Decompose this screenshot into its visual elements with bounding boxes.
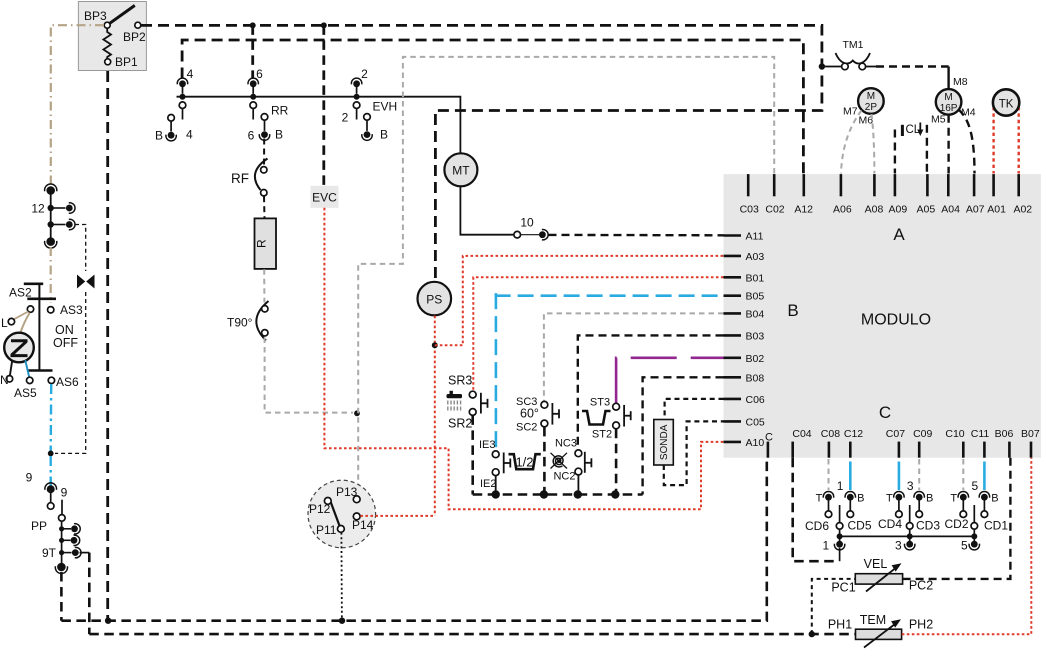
wire gray M6 to A08 <box>872 114 875 174</box>
wire blue AS6 down <box>50 384 53 451</box>
svg-text:AS3: AS3 <box>60 303 83 317</box>
wire red PS to A03 <box>435 256 724 345</box>
svg-text:1/2: 1/2 <box>515 455 533 470</box>
wire red PS down <box>434 316 436 516</box>
wire blue B05 to IE3 <box>495 293 498 450</box>
svg-text:ON: ON <box>55 323 74 337</box>
pin A02 <box>1017 174 1020 196</box>
wire PC2 to B06 <box>903 458 1011 579</box>
terminal P13 <box>353 496 360 503</box>
svg-text:IE3: IE3 <box>479 439 496 451</box>
wire M5 to A04 <box>947 115 949 174</box>
icon basin 1/2 <box>509 454 541 469</box>
pin C05 <box>724 420 742 423</box>
terminal BP2 <box>135 22 141 28</box>
pin C12 <box>849 442 852 458</box>
wire Z to N <box>10 361 12 376</box>
terminal P12 <box>324 498 331 505</box>
svg-text:P12: P12 <box>309 502 331 516</box>
svg-text:PH2: PH2 <box>909 618 933 632</box>
svg-text:M8: M8 <box>953 76 968 88</box>
svg-text:PP: PP <box>31 519 47 533</box>
svg-text:B07: B07 <box>1021 428 1040 440</box>
wire M4 to A07 <box>959 110 975 174</box>
switch BP3 blade <box>109 5 135 24</box>
pin C04 <box>791 442 794 458</box>
svg-text:TK: TK <box>999 98 1014 110</box>
connector 12 <box>50 190 52 242</box>
svg-text:CD3: CD3 <box>916 519 940 533</box>
pin B06 <box>1008 442 1011 458</box>
terminal P11 <box>338 526 345 533</box>
pushbutton block BP <box>78 2 146 71</box>
pin B07 <box>1030 442 1033 458</box>
sensor SONDA <box>654 420 674 466</box>
pin C11 <box>983 442 986 458</box>
wire purple B02 to ST3 <box>616 358 723 403</box>
wire BP1 down <box>106 71 109 621</box>
svg-text:SONDA: SONDA <box>659 424 670 460</box>
svg-text:M5: M5 <box>931 114 946 126</box>
contact group CD6/CD5 <box>828 459 830 490</box>
wire bottom bus 1 <box>61 458 766 621</box>
svg-text:5: 5 <box>961 539 968 553</box>
svg-text:A12: A12 <box>794 204 813 216</box>
pin C10 <box>962 442 965 458</box>
svg-text:EVC: EVC <box>312 191 337 205</box>
svg-text:A: A <box>893 225 905 244</box>
svg-text:AS2: AS2 <box>9 286 32 300</box>
svg-text:B: B <box>275 128 283 142</box>
pin B04 <box>724 312 742 315</box>
programmer P circle <box>308 480 376 548</box>
svg-text:N: N <box>0 373 9 387</box>
svg-text:B01: B01 <box>746 272 765 284</box>
pin A01 <box>992 174 995 196</box>
wire gray B04 to SC3 <box>544 313 724 401</box>
pin C03 <box>747 174 750 196</box>
contact 4 <box>179 80 186 87</box>
potentiometer VEL <box>855 574 902 584</box>
terminal BP3 <box>104 22 110 28</box>
svg-text:TM1: TM1 <box>843 39 864 51</box>
pin A07 <box>973 174 976 196</box>
capacitor CL <box>901 125 904 136</box>
svg-text:5: 5 <box>971 479 978 493</box>
svg-text:RF: RF <box>231 171 249 186</box>
connector bowtie <box>77 275 85 289</box>
wire red PH2 to B07 <box>902 458 1032 635</box>
switch ON/OFF actuator bar <box>24 282 43 285</box>
wire IE2 to bus <box>495 476 497 492</box>
pin A08 <box>873 174 876 196</box>
terminal BP1 <box>105 59 111 65</box>
svg-text:B: B <box>857 493 864 505</box>
wire RF to R <box>263 196 266 218</box>
svg-text:B02: B02 <box>746 353 765 365</box>
svg-text:6: 6 <box>248 129 255 143</box>
pin A06 <box>840 174 843 196</box>
svg-text:A07: A07 <box>966 204 985 216</box>
terminal AS5 <box>27 377 33 383</box>
wire red B01 to SR3 <box>473 277 723 391</box>
svg-text:CD5: CD5 <box>847 519 871 533</box>
contact group CD4/CD3 <box>898 462 901 491</box>
svg-text:BP3: BP3 <box>84 9 107 23</box>
motor M 16P <box>936 89 962 115</box>
wire tan 12 to AS3 <box>50 247 52 303</box>
svg-text:9T: 9T <box>42 546 57 560</box>
svg-text:PC1: PC1 <box>831 581 855 595</box>
svg-text:B06: B06 <box>995 428 1014 440</box>
connector PP <box>61 521 63 563</box>
switch blade P12-P11 <box>329 498 339 526</box>
svg-text:16P: 16P <box>940 103 958 114</box>
wire top bus from BP2 <box>141 25 822 281</box>
svg-text:BP2: BP2 <box>123 30 146 44</box>
svg-text:9: 9 <box>26 471 33 485</box>
svg-text:PS: PS <box>426 292 442 306</box>
svg-text:A05: A05 <box>917 204 936 216</box>
svg-text:AS6: AS6 <box>56 375 79 389</box>
svg-text:B05: B05 <box>746 291 765 303</box>
svg-text:B08: B08 <box>746 372 765 384</box>
wire thin dashed (12 branch) <box>75 225 86 272</box>
svg-text:4: 4 <box>186 128 193 142</box>
svg-text:CD4: CD4 <box>878 517 902 531</box>
svg-text:TEM: TEM <box>860 613 886 627</box>
svg-text:M: M <box>944 92 952 103</box>
svg-text:C07: C07 <box>886 428 905 440</box>
svg-text:B: B <box>991 493 998 505</box>
contact 2 <box>353 80 360 87</box>
wire gray T90 to junction <box>265 338 353 413</box>
svg-text:C12: C12 <box>844 428 863 440</box>
contact RR <box>261 114 268 121</box>
wire TM1 to M16P <box>876 65 949 67</box>
svg-text:AS5: AS5 <box>14 386 37 400</box>
svg-text:6: 6 <box>256 67 263 81</box>
svg-text:A10: A10 <box>746 437 765 449</box>
svg-text:ST2: ST2 <box>592 429 612 441</box>
svg-text:SR3: SR3 <box>448 374 472 388</box>
wire MT down <box>460 186 513 234</box>
svg-text:MT: MT <box>452 164 470 178</box>
svg-text:NC3: NC3 <box>555 438 577 450</box>
wire red TK to A01 <box>992 107 994 174</box>
wire SR2 down <box>471 415 474 494</box>
wire C04 loop <box>839 548 841 561</box>
svg-text:A06: A06 <box>833 204 852 216</box>
contact EVH <box>364 114 371 121</box>
pin A03 <box>724 255 742 258</box>
svg-text:PH1: PH1 <box>828 618 852 632</box>
svg-text:L: L <box>1 316 8 330</box>
svg-text:12: 12 <box>31 202 45 216</box>
wire black B08 loop <box>643 377 724 494</box>
wire red EVC to A10 <box>324 208 723 509</box>
svg-text:C11: C11 <box>971 428 990 440</box>
pin C08 <box>828 442 831 458</box>
terminal AS6 <box>48 377 54 383</box>
svg-text:P13: P13 <box>336 485 358 499</box>
wire P11 dotted down <box>340 533 343 620</box>
svg-text:M7: M7 <box>843 106 858 118</box>
motor Z <box>4 333 34 363</box>
resistor BP (zigzag) <box>103 28 111 59</box>
svg-text:B: B <box>926 493 933 505</box>
wire A11 <box>549 234 724 237</box>
wire red P14 <box>360 515 433 517</box>
svg-text:2: 2 <box>342 111 349 125</box>
svg-text:B04: B04 <box>746 308 765 320</box>
wire sensors bus <box>473 493 643 496</box>
svg-text:P11: P11 <box>316 523 337 537</box>
shower icon <box>447 394 463 398</box>
svg-text:2: 2 <box>361 67 368 81</box>
wire tan from BP3 <box>51 25 104 185</box>
svg-text:C02: C02 <box>765 204 784 216</box>
wire RR to RF <box>263 139 265 167</box>
svg-text:A01: A01 <box>987 204 1006 216</box>
svg-text:1: 1 <box>823 539 830 553</box>
svg-text:SR2: SR2 <box>448 417 472 431</box>
contact (L side) <box>27 306 33 312</box>
wire 9T branch <box>80 552 90 554</box>
wire ST2 down <box>615 429 618 495</box>
wire 9T down <box>88 553 91 635</box>
svg-text:CD6: CD6 <box>805 519 829 533</box>
svg-text:OFF: OFF <box>53 336 78 350</box>
svg-text:C08: C08 <box>821 428 840 440</box>
pin B02 <box>724 356 742 359</box>
svg-text:B: B <box>155 129 163 143</box>
svg-text:60°: 60° <box>520 407 539 421</box>
svg-text:C: C <box>879 403 891 422</box>
svg-text:C05: C05 <box>746 416 765 428</box>
terminal L <box>8 318 14 324</box>
wire NC2 to bus <box>577 475 579 492</box>
wire CL to A09 <box>894 130 896 174</box>
svg-text:C10: C10 <box>945 428 964 440</box>
svg-text:2P: 2P <box>865 102 878 113</box>
svg-text:IE2: IE2 <box>480 478 497 490</box>
wire SONDA to C05 <box>664 421 724 485</box>
pin C (common) <box>767 442 770 458</box>
pin A12 <box>802 174 805 196</box>
svg-text:10: 10 <box>520 216 534 230</box>
wire CL to A05 <box>926 125 928 174</box>
wire tan L to contact <box>14 312 28 320</box>
wire bus PP to bottom <box>60 572 63 621</box>
icon tub <box>582 411 611 425</box>
svg-text:P14: P14 <box>352 518 374 532</box>
pin A04 <box>947 174 950 196</box>
svg-text:RR: RR <box>271 104 289 118</box>
heater TK <box>993 89 1019 115</box>
terminal AS3 <box>48 307 54 313</box>
svg-text:EVH: EVH <box>373 100 398 114</box>
svg-text:B: B <box>787 301 798 320</box>
wire gray C02 net <box>358 57 774 496</box>
wire tan contact to Z <box>21 313 30 333</box>
svg-text:1: 1 <box>837 479 844 493</box>
pin C06 <box>724 398 742 401</box>
svg-text:CD2: CD2 <box>944 517 968 531</box>
wire CD bus <box>840 535 975 537</box>
wire PC1 <box>812 579 856 634</box>
contact 6 <box>250 80 257 87</box>
wire bottom bus 2 <box>89 633 855 636</box>
svg-text:NC2: NC2 <box>553 471 575 483</box>
wire second bus <box>182 40 803 174</box>
svg-text:T90°: T90° <box>227 316 253 330</box>
wire black B03 to NC3 <box>578 335 724 449</box>
svg-text:A09: A09 <box>889 204 908 216</box>
svg-text:C03: C03 <box>740 204 759 216</box>
svg-text:PC2: PC2 <box>909 579 933 593</box>
wire gray M7 to A06 <box>841 111 862 174</box>
svg-text:3: 3 <box>895 539 902 553</box>
pin B05 <box>724 294 742 297</box>
pin C07 <box>898 442 901 458</box>
svg-text:4: 4 <box>187 67 194 81</box>
wire C06 to SONDA <box>665 399 724 419</box>
svg-text:B: B <box>380 128 388 142</box>
svg-text:CD1: CD1 <box>984 519 1008 533</box>
pin A10 <box>724 441 742 444</box>
pin A05 <box>926 174 929 196</box>
pin A09 <box>894 174 897 196</box>
svg-text:3: 3 <box>907 479 914 493</box>
svg-text:MODULO: MODULO <box>861 312 931 329</box>
svg-text:A03: A03 <box>746 251 765 263</box>
motor MT <box>444 153 477 186</box>
svg-text:R: R <box>254 239 268 248</box>
wire branch to EVC <box>322 25 325 185</box>
resistor R <box>255 218 277 269</box>
terminal B (contact 4) <box>168 115 175 122</box>
icon pump spiral <box>553 456 563 467</box>
pin C02 <box>773 174 776 196</box>
svg-text:VEL: VEL <box>864 557 888 571</box>
contact group CD2/CD1 <box>962 459 964 490</box>
svg-text:A11: A11 <box>746 231 764 243</box>
pin B01 <box>724 276 742 279</box>
module MODULO <box>724 174 1041 458</box>
pin A11 <box>724 234 742 237</box>
svg-text:T: T <box>886 493 893 505</box>
wire blue Z to AS5 <box>25 360 29 377</box>
potentiometer TEM <box>856 629 902 639</box>
terminal P14 <box>353 513 360 520</box>
svg-text:M: M <box>867 91 875 102</box>
wire gray R to T90 <box>263 269 265 302</box>
pin C09 <box>918 442 921 458</box>
valve EVC label <box>311 186 339 208</box>
svg-text:BP1: BP1 <box>115 55 138 69</box>
svg-text:9: 9 <box>61 486 68 500</box>
svg-text:B03: B03 <box>746 330 765 342</box>
wire branch to contact 6 <box>251 25 254 78</box>
svg-text:A02: A02 <box>1013 204 1032 216</box>
pressure switch PS <box>418 282 452 316</box>
svg-text:C04: C04 <box>792 428 811 440</box>
wire solid bus contacts row <box>177 97 461 154</box>
svg-text:T: T <box>950 493 957 505</box>
svg-text:SC2: SC2 <box>516 422 537 434</box>
terminal N <box>6 376 12 382</box>
wire SC2 down <box>543 427 546 495</box>
svg-text:C06: C06 <box>746 394 765 406</box>
svg-text:A08: A08 <box>865 204 884 216</box>
motor M 2P <box>858 88 884 114</box>
svg-text:T: T <box>816 493 823 505</box>
svg-text:C09: C09 <box>913 428 932 440</box>
pin B08 <box>724 376 742 379</box>
svg-text:A04: A04 <box>941 204 960 216</box>
wire red TK to A02 <box>1018 107 1020 174</box>
svg-text:M4: M4 <box>961 107 976 119</box>
pin B03 <box>724 334 742 337</box>
svg-text:ST3: ST3 <box>590 397 610 409</box>
